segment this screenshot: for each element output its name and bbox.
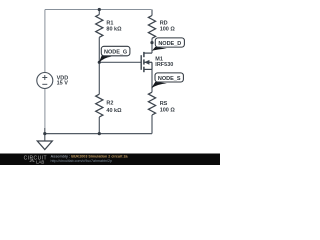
svg-text:NODE_G: NODE_G [104,49,127,55]
svg-text:100 Ω: 100 Ω [160,27,176,33]
svg-text:NODE_S: NODE_S [158,76,181,82]
svg-text:80 kΩ: 80 kΩ [106,27,122,33]
svg-text:R2: R2 [106,100,113,106]
svg-text:100 Ω: 100 Ω [160,108,176,114]
svg-text:Assembly : BUK2003 Simulation: Assembly : BUK2003 Simulation 2 circuit … [51,154,129,158]
svg-text:http://circuitlab.com/c/9uc7ah: http://circuitlab.com/c/9uc7ahmabtn/2p [51,159,113,163]
svg-text:LAB: LAB [36,159,44,164]
svg-text:15 V: 15 V [57,81,69,87]
svg-text:NODE_D: NODE_D [158,41,181,47]
svg-text:40 kΩ: 40 kΩ [106,108,122,114]
svg-text:IRF530: IRF530 [155,62,173,68]
svg-text:RS: RS [160,101,168,107]
svg-text:R1: R1 [106,20,113,26]
svg-text:RD: RD [160,20,168,26]
